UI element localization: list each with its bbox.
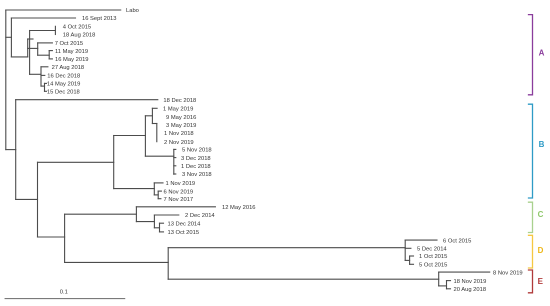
svg-text:5 Dec 2014: 5 Dec 2014 [417, 247, 447, 253]
tip 6 Oct 2015 [405, 238, 471, 244]
svg-text:1 Nov 2019: 1 Nov 2019 [166, 181, 196, 187]
tip 5 Nov 2018 [174, 148, 212, 154]
wire n1 to n2 [154, 194, 158, 196]
node W vertical [144, 116, 146, 156]
bracket clade B [529, 104, 545, 198]
clade A root vertical [29, 31, 31, 75]
tip 2 Dec 2014 [154, 213, 215, 219]
wire C root to node c2 [136, 221, 154, 223]
clade E root vertical [438, 272, 440, 286]
root vertical [5, 10, 7, 150]
svg-text:14 May 2019: 14 May 2019 [47, 82, 81, 88]
5 Nov cluster vertical [173, 149, 175, 174]
tip 3 Nov 2018 [174, 172, 212, 178]
bracket clade D [529, 235, 544, 268]
wire q1 to q2 [152, 123, 156, 125]
sub3 vertical [40, 67, 42, 86]
svg-text:1 May 2019: 1 May 2019 [163, 107, 193, 113]
node K vertical [64, 214, 66, 262]
tip 1 Nov 2019 [154, 181, 195, 187]
svg-text:6 Oct 2015: 6 Oct 2015 [443, 238, 471, 244]
tip 1 Dec 2018 [174, 164, 211, 170]
svg-text:16 Sept 2013: 16 Sept 2013 [82, 16, 117, 22]
svg-text:E: E [538, 277, 544, 286]
svg-text:4 Oct 2015: 4 Oct 2015 [63, 25, 91, 31]
wire DE to clade E root [168, 278, 439, 280]
wire Z to node W [114, 135, 146, 137]
wire R2 to clade A root [11, 56, 27, 58]
cherry vertical (18 Nov,20 Aug) [446, 281, 448, 289]
node n2 vertical [157, 191, 159, 199]
tip 1 Oct 2015 [410, 254, 448, 260]
cherry vertical (1 Oct,5 Oct) [409, 256, 411, 264]
tip 27 Aug 2018 [41, 65, 84, 71]
wire W to node q1 [145, 115, 152, 117]
wire DE to clade D root [168, 247, 405, 249]
svg-text:3 Nov 2018: 3 Nov 2018 [182, 172, 212, 178]
cherry vertical (13 Dec,13 Oct) [159, 223, 161, 232]
wire root to node X [6, 149, 16, 151]
clade A inner vertical [27, 39, 29, 57]
svg-text:9 May 2016: 9 May 2016 [166, 115, 196, 121]
svg-text:1 Dec 2018: 1 Dec 2018 [181, 164, 211, 170]
cherry vertical (4 Oct,18 Aug) [54, 26, 56, 34]
node Y vertical [37, 162, 39, 237]
clade C root vertical [135, 207, 137, 222]
bracket clade E [529, 270, 544, 293]
clade D root vertical [404, 240, 406, 260]
svg-text:15 Dec 2018: 15 Dec 2018 [47, 90, 80, 96]
wire Z to node n1 [114, 188, 155, 190]
svg-text:8 Nov 2019: 8 Nov 2019 [493, 270, 523, 276]
tip 13 Dec 2014 [160, 221, 202, 227]
svg-text:D: D [538, 246, 544, 255]
tip 14 May 2019 [45, 82, 81, 88]
svg-text:A: A [539, 48, 545, 57]
tip 6 Nov 2019 [158, 189, 193, 195]
tip 5 Dec 2014 [405, 247, 447, 253]
tip 12 May 2016 [136, 205, 255, 211]
svg-text:5 Nov 2018: 5 Nov 2018 [182, 148, 212, 154]
node Z vertical [113, 136, 115, 189]
svg-text:5 Oct 2015: 5 Oct 2015 [419, 263, 447, 269]
tip 15 Dec 2018 [45, 90, 80, 96]
wire c2 to cherry (13 Dec,13 Oct) [154, 227, 159, 229]
wire D root to cherry (1 Oct,5 Oct) [405, 259, 409, 261]
tip 16 May 2019 [49, 57, 88, 63]
svg-text:3 May 2019: 3 May 2019 [166, 123, 196, 129]
svg-text:1 Oct 2015: 1 Oct 2015 [419, 254, 447, 260]
svg-text:Labo: Labo [126, 8, 139, 14]
tip 20 Aug 2018 [447, 287, 487, 293]
wire Y to node Z [38, 161, 114, 163]
svg-text:13 Dec 2014: 13 Dec 2014 [168, 221, 202, 227]
wire E root to cherry (18 Nov,20 Aug) [439, 285, 447, 287]
svg-text:16 May 2019: 16 May 2019 [55, 57, 89, 63]
node q1 vertical [151, 108, 153, 123]
node q2 vertical [156, 124, 158, 142]
node DE vertical [167, 248, 169, 280]
svg-text:16 Dec 2018: 16 Dec 2018 [47, 74, 80, 80]
svg-text:B: B [539, 140, 545, 149]
svg-text:13 Oct 2015: 13 Oct 2015 [168, 230, 200, 236]
cherry vertical (14 May,15 Dec) [44, 83, 46, 91]
tip 11 May 2019 [49, 49, 88, 55]
tip 1 May 2019 [152, 107, 193, 113]
tip 16 Sept 2013 [11, 16, 116, 22]
svg-text:6 Nov 2019: 6 Nov 2019 [164, 189, 194, 195]
node c2 vertical [153, 215, 155, 228]
node R2 vertical [10, 18, 12, 57]
scale bar [5, 290, 125, 299]
tip 18 Dec 2018 [16, 98, 197, 104]
node n1 vertical [153, 183, 155, 195]
svg-text:11 May 2019: 11 May 2019 [55, 49, 88, 55]
wire to cherry (4 Oct,18 Aug) [30, 30, 56, 32]
sub2 vertical [37, 43, 39, 55]
clade A inner stub [28, 38, 33, 40]
svg-text:3 Dec 2018: 3 Dec 2018 [181, 156, 211, 162]
wire K to node DE [65, 261, 169, 263]
cherry vertical (11 May,16 May) [48, 51, 50, 59]
tip 7 Nov 2017 [158, 197, 193, 203]
node X vertical [15, 100, 17, 200]
svg-text:18 Nov 2019: 18 Nov 2019 [454, 279, 487, 285]
wire W to 5 Nov cluster [145, 155, 173, 157]
svg-text:2 Dec 2014: 2 Dec 2014 [185, 213, 215, 219]
svg-text:20 Aug 2018: 20 Aug 2018 [454, 287, 487, 293]
wire A root to sub3 node [30, 73, 41, 75]
svg-text:7 Nov 2017: 7 Nov 2017 [164, 197, 194, 203]
tip 5 Oct 2015 [410, 263, 448, 269]
tip 3 Dec 2018 [174, 156, 211, 162]
svg-text:27 Aug 2018: 27 Aug 2018 [52, 65, 85, 71]
bracket clade C [529, 202, 544, 232]
tip 7 Oct 2015 [38, 41, 83, 47]
svg-text:7 Oct 2015: 7 Oct 2015 [55, 41, 83, 47]
svg-text:C: C [538, 210, 544, 219]
tip 13 Oct 2015 [160, 230, 200, 236]
wire A root to sub2 node [28, 47, 38, 49]
svg-text:12 May 2016: 12 May 2016 [222, 205, 256, 211]
svg-text:18 Aug 2018: 18 Aug 2018 [63, 33, 96, 39]
tip Labo [6, 8, 139, 14]
bracket clade A [529, 15, 545, 95]
svg-text:0.1: 0.1 [60, 290, 68, 296]
tip 8 Nov 2019 [439, 270, 523, 276]
svg-text:1 Nov 2018: 1 Nov 2018 [164, 131, 194, 137]
svg-text:2 Nov 2019: 2 Nov 2019 [164, 140, 194, 146]
wire Y to node K [38, 236, 65, 238]
svg-text:18 Dec 2018: 18 Dec 2018 [163, 98, 196, 104]
tip 16 Dec 2018 [41, 74, 80, 80]
wire sub3 to cherry (14 May,15 Dec) [41, 85, 45, 87]
wire X to node Y [16, 198, 38, 200]
wire root to node R2 [6, 36, 12, 38]
wire K to clade C root [65, 213, 137, 215]
tip 18 Nov 2019 [447, 279, 487, 285]
wire sub2 to cherry (11 May,16 May) [38, 54, 50, 56]
